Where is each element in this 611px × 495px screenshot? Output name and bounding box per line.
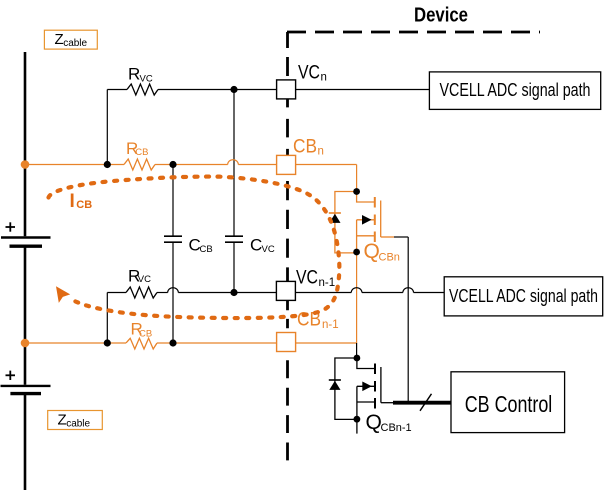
Z_cable label top [44,30,97,49]
CB Control box [451,372,565,433]
hop over gate vertical [403,288,414,293]
wire CBn row orange [25,164,276,166]
VCELL ADC signal path box 2 [444,277,603,316]
svg-text:VC: VC [138,274,151,285]
svg-text:CB: CB [135,147,148,158]
hop over orange vertical [351,288,362,293]
Z_cable label bottom [48,411,103,430]
pin square VCn [277,80,296,99]
MOSFET QCBn body diode [329,192,357,253]
svg-text:CB Control: CB Control [465,391,553,417]
QCBn source dot [353,249,360,256]
svg-text:CB: CB [139,328,152,339]
QCBn-1 source dot [354,416,361,423]
resistor RVC top zigzag [127,84,158,95]
pin square CBn-1 [277,333,296,352]
svg-text:C: C [250,236,262,255]
gate wire QCBn to CB control [394,237,408,403]
device boundary dashed horizontal [287,31,540,34]
resistor RCB top zigzag [124,159,155,170]
pin square CBn [277,155,296,174]
RCB top label [126,139,149,158]
hop on CBn wire over CVC [228,160,239,165]
VCn-1 label [296,268,335,289]
QCBn-1 label [366,411,412,434]
wire CBn-1 row orange [25,342,276,344]
svg-text:n: n [321,72,327,84]
svg-text:I: I [70,191,75,212]
svg-text:Device: Device [414,4,468,27]
junction dot battery CBn-1 [21,339,30,348]
ICB arrowhead [56,286,70,303]
black segment to QCBn-1 drain [356,343,358,358]
wire VCn row (RVC top) [107,90,276,165]
QCBn drain dot [353,188,360,195]
pin square VCn-1 [276,281,295,300]
svg-text:VC: VC [262,244,275,255]
CVC label [250,236,275,255]
svg-text:CB: CB [200,244,213,255]
svg-text:R: R [128,65,140,84]
svg-text:CB: CB [293,136,317,157]
junction dot CCB top [169,161,176,168]
battery rail wire [24,52,27,490]
svg-text:cable: cable [66,418,90,429]
CBn label [293,136,324,157]
svg-text:VCELL ADC signal path: VCELL ADC signal path [440,80,591,100]
junction dot battery CBn [21,160,30,169]
hop on VCn-1 wire over CCB [168,288,179,293]
svg-text:n-1: n-1 [319,277,336,289]
RVC top label [128,65,153,85]
MOSFET QCBn-1 [357,358,394,434]
svg-text:n-1: n-1 [322,319,339,331]
svg-text:Q: Q [364,240,380,263]
svg-text:VCELL ADC signal path: VCELL ADC signal path [449,286,598,306]
CCB label [189,236,213,255]
junction dot CVC bottom [230,289,237,296]
junction dot RVC drop CBn-1 [104,339,111,346]
wire VCn-1 row (RVC bottom) [107,293,276,344]
resistor RCB bottom zigzag [126,338,157,349]
battery cell B2 [1,371,51,394]
CB control thick wire [393,401,451,405]
VCn label [298,63,327,84]
svg-text:cable: cable [63,38,87,49]
wire VCn-1 to ADC2 with hops [296,292,445,294]
capacitor CCB [164,165,182,344]
MOSFET QCBn-1 body diode [329,358,357,419]
resistor RVC bottom zigzag [126,287,157,298]
RCB bottom label [131,320,153,340]
RVC bottom label [128,267,151,286]
QCBn bulk arrow [362,215,372,225]
VCELL ADC signal path box 1 [429,72,600,110]
capacitor CVC [225,90,243,293]
svg-text:CBn-1: CBn-1 [381,422,412,434]
MOSFET QCBn [357,192,394,253]
ICB current loop curve [49,177,340,319]
svg-text:VC: VC [140,73,153,84]
junction dot CVC top [230,86,237,93]
svg-text:Q: Q [366,411,382,434]
QCBn-1 bulk arrow [362,382,372,392]
CBn-1 label [297,310,339,331]
slash on CB control wire [420,394,432,411]
junction dot CCB bottom [169,339,176,346]
svg-text:CBn: CBn [379,251,400,263]
QCBn-1 drain dot [354,355,361,362]
ICB label [70,191,93,212]
svg-text:n: n [318,146,324,158]
device boundary dashed vertical [286,32,289,460]
svg-text:VC: VC [296,268,318,289]
svg-text:CB: CB [76,199,92,211]
orange vertical CBn net [296,165,357,344]
wire VCn to ADC1 [296,89,430,91]
QCBn label [364,240,400,263]
svg-text:VC: VC [298,63,320,84]
battery cell B1 [1,222,51,246]
junction dot RVC drop CBn [104,161,111,168]
